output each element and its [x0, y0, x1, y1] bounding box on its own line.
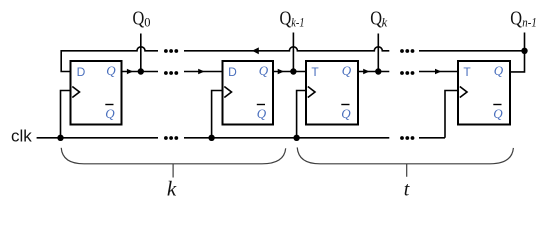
svg-text:T: T: [311, 65, 319, 79]
wire: feedback line middle segment with hops over Qk-1 and Qk stubs: [184, 47, 389, 51]
wire: clk line right segment: [419, 137, 445, 139]
node label Qn-1: [510, 7, 537, 29]
junction at node Q0: [138, 68, 144, 74]
wire: clk riser to U1 clock: [61, 91, 71, 138]
svg-text:Q: Q: [259, 63, 269, 78]
wire: into U4 T input: [419, 71, 458, 73]
wire: into U2 D input: [184, 71, 223, 73]
U3 clock input triangle: [308, 87, 315, 98]
brace for k group: [61, 148, 286, 178]
wire: Qk-1 stub from label to Q line: [292, 33, 294, 72]
svg-text:Q: Q: [257, 106, 267, 121]
svg-text:Q: Q: [494, 63, 504, 78]
junction at node Qk: [375, 68, 381, 74]
wire: Qk stub from label to Q line: [377, 34, 379, 72]
svg-text:Q: Q: [341, 106, 351, 121]
brace for t group: [297, 147, 513, 176]
ellipsis on feedback line (right): [400, 49, 414, 53]
wire: clk riser to U2 clock: [212, 91, 223, 138]
svg-text:Q: Q: [133, 7, 145, 29]
T flip-flop U4 box: [458, 61, 510, 125]
svg-text:Q: Q: [342, 63, 352, 78]
svg-text:n-1: n-1: [522, 15, 537, 29]
U1 clock input triangle: [72, 87, 79, 98]
ellipsis on Q line (left): [164, 71, 178, 75]
node label Q0: [133, 7, 151, 29]
svg-text:t: t: [404, 179, 410, 201]
arrow before U2 D input: [198, 69, 204, 74]
svg-text:D: D: [228, 65, 237, 79]
svg-text:Q: Q: [493, 106, 503, 121]
ellipsis on clk line (left): [164, 136, 178, 140]
wire: U3 Q output rightwards: [358, 71, 389, 73]
wire: clk riser to U3 clock: [297, 91, 306, 138]
U1 pin label Qbar: [105, 105, 115, 122]
wire: clk riser to U4 clock: [445, 91, 458, 138]
D flip-flop U1 box: [71, 61, 122, 125]
svg-text:k: k: [382, 15, 388, 29]
wire: U2 Q output to U3 T input: [273, 71, 306, 73]
wire: clk line middle segment: [184, 137, 389, 139]
svg-text:Q: Q: [280, 7, 292, 29]
svg-text:k-1: k-1: [291, 15, 304, 29]
junction clk/U2: [208, 135, 214, 141]
svg-text:clk: clk: [11, 127, 32, 146]
T flip-flop U3 box: [306, 61, 358, 125]
svg-text:Q: Q: [510, 7, 522, 29]
svg-text:Q: Q: [106, 63, 116, 78]
U3 pin label Qbar: [341, 105, 351, 122]
arrow before U4 T input: [435, 69, 441, 74]
node label Qk: [370, 7, 387, 29]
U4 pin label Qbar: [493, 105, 503, 122]
wire: feedback line right segment to Qn-1 tap: [419, 50, 525, 52]
svg-text:Q: Q: [105, 106, 115, 121]
wire: feedback line vertical drop to U1 D input: [61, 50, 70, 72]
wire: feedback line left segment with hop over Q0 stub: [61, 47, 158, 51]
wire: Q0 stub from label to Q line: [140, 34, 142, 72]
arrow on feedback line pointing left: [252, 47, 259, 54]
U4 clock input triangle: [460, 87, 467, 98]
wire: U1 Q output to node Q0: [122, 71, 159, 73]
wire: Qn-1 stub from label down to U4 Q output: [510, 33, 525, 72]
junction clk/U1: [57, 135, 63, 141]
svg-text:T: T: [463, 65, 471, 79]
junction on feedback line at Qn-1: [521, 48, 527, 54]
arrow on U2 Q output: [278, 69, 284, 74]
U2 pin label Qbar: [257, 105, 267, 122]
arrow on U3 Q output: [363, 69, 369, 74]
D flip-flop U2 box: [223, 61, 274, 125]
node label Qk-1: [280, 7, 305, 29]
svg-text:0: 0: [144, 15, 150, 29]
ellipsis on clk line (right): [400, 136, 414, 140]
U2 clock input triangle: [224, 87, 231, 98]
wire: clk line left segment: [37, 137, 158, 139]
svg-text:D: D: [77, 65, 86, 79]
junction clk/U3: [293, 135, 299, 141]
svg-text:k: k: [167, 177, 177, 201]
ellipsis on feedback line (left): [164, 49, 178, 53]
junction at node Qk-1: [290, 68, 296, 74]
arrow on U1 Q output pointing right: [127, 69, 133, 74]
ellipsis on Q line (right): [400, 71, 414, 75]
